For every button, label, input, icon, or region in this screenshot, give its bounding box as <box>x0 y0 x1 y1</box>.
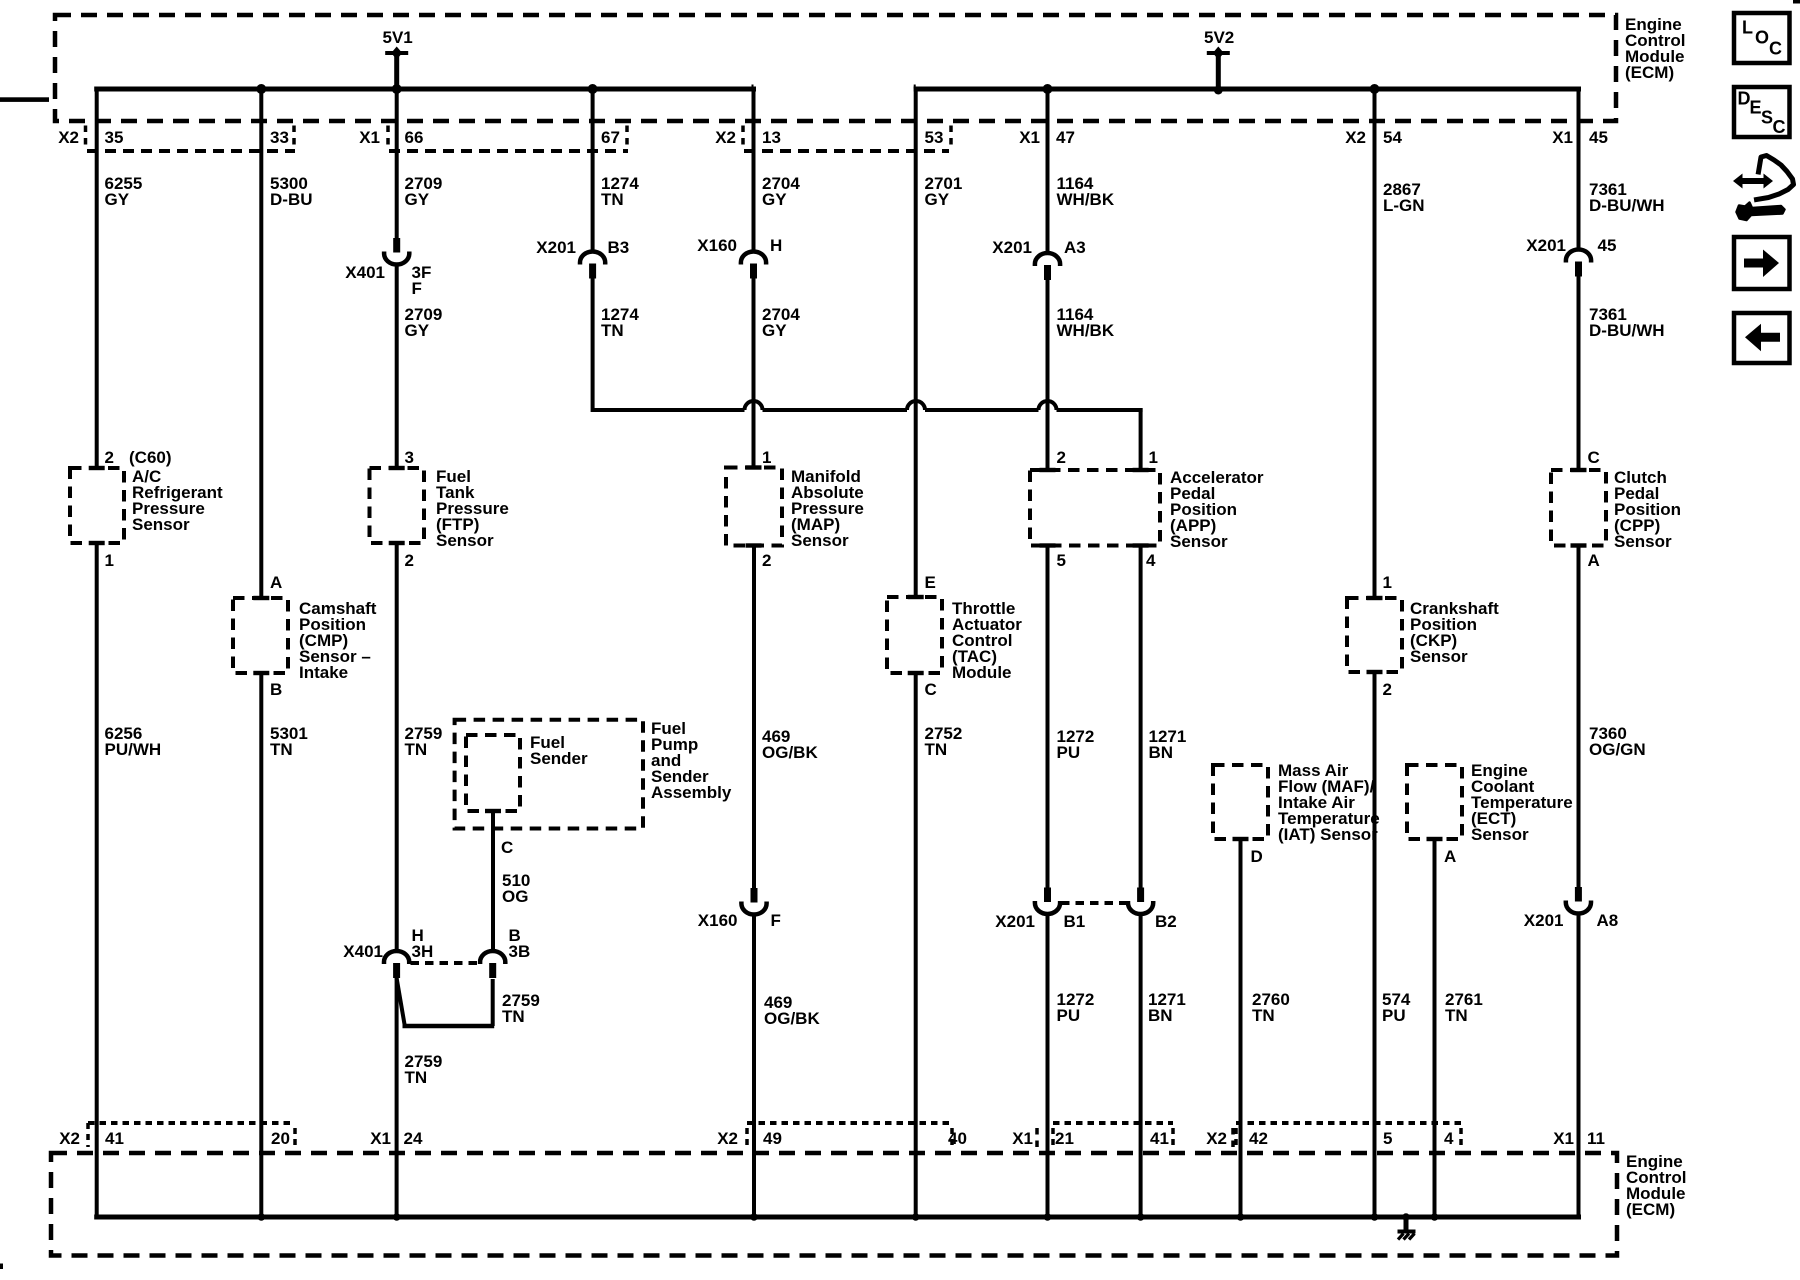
svg-text:X2: X2 <box>715 128 736 147</box>
svg-text:X2: X2 <box>1345 128 1366 147</box>
svg-text:C: C <box>1773 117 1786 137</box>
bottom band bracket X2 49-40 <box>747 1121 952 1125</box>
svg-text:D-BU: D-BU <box>270 190 313 209</box>
svg-text:53: 53 <box>925 128 944 147</box>
ground symbol <box>1402 1213 1410 1221</box>
svg-text:A: A <box>1444 847 1456 866</box>
svg-text:Sender: Sender <box>530 749 588 768</box>
svg-text:41: 41 <box>105 1129 124 1148</box>
svg-text:PU: PU <box>1057 1006 1081 1025</box>
back arrow icon box <box>1734 313 1790 363</box>
svg-text:21: 21 <box>1055 1129 1074 1148</box>
5V bus 2 <box>914 87 1581 92</box>
svg-text:Sensor: Sensor <box>791 531 849 550</box>
inline connector X401 pin 3F <box>393 238 400 253</box>
5V bus 1 <box>94 87 756 92</box>
wire 510 OG (fuel sender C to X401 B) <box>491 811 495 951</box>
svg-text:3B: 3B <box>509 942 531 961</box>
ECM top dashed box <box>55 15 1616 121</box>
bottom bus junction dots <box>258 1213 266 1221</box>
svg-text:TN: TN <box>502 1007 525 1026</box>
inline connector X201 pin B3 <box>580 251 605 264</box>
svg-text:Module: Module <box>952 663 1012 682</box>
wire 1274 TN (ECM 67 to X201 B3) <box>591 87 595 251</box>
Clutch Pedal Position (CPP) Sensor box <box>1551 470 1606 546</box>
svg-text:A: A <box>270 573 282 592</box>
svg-text:GY: GY <box>105 190 130 209</box>
svg-text:F: F <box>412 279 422 298</box>
svg-text:Sensor: Sensor <box>1410 647 1468 666</box>
corner artifact bottom-left <box>0 1264 3 1270</box>
svg-text:BN: BN <box>1149 743 1174 762</box>
svg-text:4: 4 <box>1444 1129 1454 1148</box>
dashed link X201 B1-B2 <box>1061 901 1127 905</box>
svg-text:C: C <box>501 838 513 857</box>
svg-text:H: H <box>770 236 782 255</box>
svg-text:A3: A3 <box>1064 238 1086 257</box>
svg-text:X401: X401 <box>343 942 383 961</box>
svg-text:20: 20 <box>271 1129 290 1148</box>
svg-text:X160: X160 <box>698 911 738 930</box>
svg-text:5V2: 5V2 <box>1204 28 1234 47</box>
top band bracket X2 13-53 <box>744 149 949 153</box>
svg-text:5: 5 <box>1057 551 1066 570</box>
bus1 junction dots <box>256 84 266 94</box>
inline connector X201 pin 45 <box>1566 250 1591 263</box>
wire 7361 D-BU/WH (ECM X1-45 to X201 45) <box>1577 87 1581 250</box>
svg-text:1: 1 <box>1383 573 1392 592</box>
wire 2759 TN (X401 H to ECM X1-24) <box>395 978 399 1217</box>
bottom band bracket X1 21-41 <box>1053 1121 1173 1125</box>
corner artifact top-right <box>1793 0 1800 4</box>
svg-text:47: 47 <box>1056 128 1075 147</box>
tools/repair icon: wrench <box>1737 203 1785 221</box>
svg-text:(C60): (C60) <box>129 448 172 467</box>
inline connector X201 pin B2 <box>1137 888 1144 903</box>
svg-text:TN: TN <box>601 190 624 209</box>
svg-text:TN: TN <box>925 740 948 759</box>
wire 574 PU (CKP 2 to ECM 5) <box>1373 672 1377 1217</box>
wire 2709 GY (ECM X1-66 to X401 3F) <box>395 87 399 239</box>
svg-text:E: E <box>925 573 936 592</box>
svg-text:WH/BK: WH/BK <box>1057 321 1115 340</box>
bottom band separators <box>1035 1128 1039 1148</box>
svg-text:11: 11 <box>1587 1129 1605 1148</box>
5V1 power symbol <box>385 51 408 55</box>
svg-text:OG/BK: OG/BK <box>762 743 818 762</box>
svg-text:Sensor: Sensor <box>1170 532 1228 551</box>
svg-text:GY: GY <box>405 321 430 340</box>
svg-text:L: L <box>1742 18 1753 38</box>
svg-text:X160: X160 <box>697 236 737 255</box>
Crankshaft Position (CKP) Sensor box <box>1347 598 1402 672</box>
wire 1272 PU (APP 5 to X201 B1) <box>1046 546 1050 889</box>
svg-text:X2: X2 <box>717 1129 738 1148</box>
svg-text:OG/GN: OG/GN <box>1589 740 1646 759</box>
svg-text:C: C <box>1588 448 1600 467</box>
hop over 2704 GY <box>745 401 763 410</box>
wire 1274 TN (X201 B3 down and across to APP pin 1) <box>591 278 595 412</box>
svg-text:Assembly: Assembly <box>651 783 732 802</box>
wire 1272 PU (X201 B1 to ECM X1-21) <box>1046 914 1050 1218</box>
svg-text:B3: B3 <box>608 238 630 257</box>
wire 2709 GY (X401 F to FTP pin 3) <box>395 264 399 468</box>
svg-text:X401: X401 <box>345 263 385 282</box>
tools/repair icon: swoosh outline <box>1757 156 1794 200</box>
svg-text:Sensor: Sensor <box>132 515 190 534</box>
svg-text:49: 49 <box>763 1129 782 1148</box>
wire 6255 GY (ECM X2-35 to A/C sensor pin 2) <box>95 87 99 469</box>
wire 1271 BN (APP 4 to X201 B2) <box>1139 546 1143 889</box>
svg-text:TN: TN <box>405 1068 428 1087</box>
Fuel Pump and Sender Assembly box <box>455 720 643 829</box>
bottom band bracket X2 41-20 <box>88 1121 295 1125</box>
wire 469 OG/BK (MAP pin 2 to X160 F) <box>752 546 756 889</box>
svg-text:4: 4 <box>1146 551 1156 570</box>
Manifold Absolute Pressure (MAP) Sensor box <box>726 468 782 546</box>
svg-text:2: 2 <box>1057 448 1066 467</box>
svg-text:O: O <box>1755 28 1769 48</box>
svg-text:X201: X201 <box>536 238 576 257</box>
svg-text:Sensor: Sensor <box>1614 532 1672 551</box>
svg-text:66: 66 <box>405 128 424 147</box>
svg-text:C: C <box>1769 39 1782 59</box>
bottom ground/signal bus <box>94 1215 1581 1220</box>
wire 2701 GY (ECM 53 to TAC module pin E) <box>914 85 916 89</box>
LOC icon box <box>1734 13 1790 63</box>
svg-text:X201: X201 <box>1526 236 1566 255</box>
svg-text:TN: TN <box>405 740 428 759</box>
svg-text:1: 1 <box>1149 448 1158 467</box>
svg-text:X2: X2 <box>1206 1129 1227 1148</box>
svg-text:54: 54 <box>1383 128 1402 147</box>
svg-text:13: 13 <box>762 128 781 147</box>
inline connector X160 pin F <box>751 888 758 903</box>
Accelerator Pedal Position (APP) Sensor box <box>1030 470 1160 546</box>
svg-text:TN: TN <box>601 321 624 340</box>
svg-text:B1: B1 <box>1064 912 1086 931</box>
wire 6256 PU/WH (A/C sensor pin 1 to ECM X2-41) <box>95 543 99 1217</box>
svg-text:X1: X1 <box>1012 1129 1033 1148</box>
inline connector X201 pin A3 <box>1035 253 1060 266</box>
svg-text:BN: BN <box>1148 1006 1173 1025</box>
wire 1164 WH/BK (ECM X1-47 to X201 A3) <box>1046 87 1050 253</box>
A/C Refrigerant Pressure Sensor box <box>70 468 124 543</box>
svg-text:GY: GY <box>925 190 950 209</box>
Fuel Sender box <box>466 735 520 811</box>
svg-text:S: S <box>1761 108 1773 128</box>
Camshaft Position (CMP) Sensor box <box>233 598 288 673</box>
inline connector X401 pin B/3B <box>480 951 505 964</box>
wire 2761 TN (ECT A to ECM 4) <box>1433 839 1437 1217</box>
ECM bottom dashed box <box>51 1153 1617 1256</box>
svg-text:B: B <box>270 680 282 699</box>
svg-text:1: 1 <box>105 551 114 570</box>
svg-text:WH/BK: WH/BK <box>1057 190 1115 209</box>
svg-text:X2: X2 <box>59 1129 80 1148</box>
wire 5301 TN (CMP pin B to ECM 20) <box>259 673 263 1217</box>
svg-text:D-BU/WH: D-BU/WH <box>1589 321 1665 340</box>
svg-text:3H: 3H <box>412 942 434 961</box>
svg-text:33: 33 <box>270 128 289 147</box>
wire 2704 GY (ECM X2-13 to X160 H) <box>752 85 754 89</box>
svg-text:GY: GY <box>762 321 787 340</box>
wire 2760 TN (MAF D to ECM X2-42) <box>1239 839 1243 1217</box>
svg-text:F: F <box>771 911 781 930</box>
wire 2704 GY (X160 H to MAP pin 1) <box>752 278 756 468</box>
svg-text:A: A <box>1588 551 1600 570</box>
svg-text:TN: TN <box>1252 1006 1275 1025</box>
Mass Air Flow (MAF)/IAT Sensor box <box>1213 765 1268 839</box>
svg-text:OG: OG <box>502 887 528 906</box>
svg-text:Sensor: Sensor <box>436 531 494 550</box>
wire 2759 TN (FTP pin 2 to X401 H) <box>395 543 399 951</box>
svg-text:2: 2 <box>762 551 771 570</box>
Throttle Actuator Control (TAC) Module box <box>887 597 942 673</box>
svg-text:2: 2 <box>405 551 414 570</box>
DESC icon box <box>1734 87 1790 137</box>
svg-text:PU: PU <box>1382 1006 1406 1025</box>
svg-text:45: 45 <box>1598 236 1617 255</box>
top band separators <box>84 126 88 149</box>
svg-text:X1: X1 <box>1553 1129 1574 1148</box>
hop over 1164 WH/BK <box>1039 401 1057 410</box>
svg-text:OG/BK: OG/BK <box>764 1009 820 1028</box>
svg-text:45: 45 <box>1589 128 1608 147</box>
svg-text:(ECM): (ECM) <box>1625 63 1674 82</box>
svg-text:X2: X2 <box>58 128 79 147</box>
svg-text:X1: X1 <box>1552 128 1573 147</box>
top band bracket X1 66-67 <box>389 149 628 153</box>
wire 7360 OG/GN (X201 A8 to ECM X1-11) <box>1577 913 1581 1217</box>
svg-text:A8: A8 <box>1597 911 1619 930</box>
svg-text:TN: TN <box>270 740 293 759</box>
inline connector X401 pin H/3H <box>384 951 409 964</box>
svg-text:Sensor: Sensor <box>1471 825 1529 844</box>
svg-text:5: 5 <box>1383 1129 1392 1148</box>
wire 2867 L-GN (ECM X2-54 to CKP pin 1) <box>1373 87 1377 599</box>
svg-text:67: 67 <box>601 128 620 147</box>
hop over 2701 GY <box>907 401 925 410</box>
svg-text:Intake: Intake <box>299 663 348 682</box>
svg-text:E: E <box>1750 98 1762 118</box>
svg-text:TN: TN <box>1445 1006 1468 1025</box>
svg-text:(IAT) Sensor: (IAT) Sensor <box>1278 825 1378 844</box>
forward arrow icon box <box>1734 237 1790 289</box>
svg-text:41: 41 <box>1150 1129 1169 1148</box>
inline connector X201 pin A8 <box>1575 887 1582 902</box>
svg-text:(ECM): (ECM) <box>1626 1200 1675 1219</box>
svg-text:PU/WH: PU/WH <box>105 740 162 759</box>
svg-text:D-BU/WH: D-BU/WH <box>1589 196 1665 215</box>
svg-text:1: 1 <box>762 448 771 467</box>
svg-text:24: 24 <box>404 1129 423 1148</box>
wire 1271 BN (X201 B2 to ECM 41) <box>1139 914 1143 1218</box>
wire 7361 D-BU/WH (X201 45 to CPP pin C) <box>1577 276 1581 470</box>
bottom band bracket X2 42-5-4 <box>1236 1121 1461 1125</box>
svg-text:35: 35 <box>105 128 124 147</box>
svg-text:3: 3 <box>405 448 414 467</box>
5V2 power symbol <box>1207 51 1230 55</box>
splice wire 2759 TN to fuel sender <box>397 978 405 1026</box>
svg-text:GY: GY <box>762 190 787 209</box>
svg-text:X201: X201 <box>995 912 1035 931</box>
wire 7360 OG/GN (CPP A to X201 A8) <box>1577 546 1581 889</box>
bus2 junction dots <box>1043 84 1053 94</box>
svg-text:D: D <box>1251 847 1263 866</box>
svg-text:5V1: 5V1 <box>383 28 413 47</box>
wire 2752 TN (TAC C to ECM 40) <box>914 673 918 1217</box>
wire 469 OG/BK (X160 F to ECM X2-49) <box>752 914 756 1217</box>
svg-text:C: C <box>925 680 937 699</box>
Fuel Tank Pressure (FTP) Sensor box <box>370 468 425 543</box>
svg-text:40: 40 <box>948 1129 967 1148</box>
svg-text:2: 2 <box>1383 680 1392 699</box>
tools/repair icon: double arrow <box>1733 174 1773 189</box>
wire 5300 D-BU (ECM 33 to CMP pin A) <box>259 87 263 599</box>
Engine Coolant Temperature (ECT) Sensor box <box>1407 765 1462 839</box>
inline connector X160 pin H <box>741 251 766 264</box>
svg-text:PU: PU <box>1057 743 1081 762</box>
svg-text:X201: X201 <box>1524 911 1564 930</box>
page-edge wire stub left <box>0 97 49 102</box>
top band bracket X2 35-33 <box>87 149 295 153</box>
svg-text:X201: X201 <box>992 238 1032 257</box>
svg-text:42: 42 <box>1249 1129 1268 1148</box>
svg-text:B2: B2 <box>1155 912 1177 931</box>
svg-text:X1: X1 <box>359 128 380 147</box>
svg-text:2: 2 <box>105 448 114 467</box>
svg-text:X1: X1 <box>370 1129 391 1148</box>
svg-text:GY: GY <box>405 190 430 209</box>
inline connector X201 pin B1 <box>1044 888 1051 903</box>
svg-text:L-GN: L-GN <box>1383 196 1425 215</box>
svg-text:X1: X1 <box>1019 128 1040 147</box>
dashed link X401 H-B <box>411 961 480 965</box>
wire 1164 WH/BK (X201 A3 to APP pin 2) <box>1046 280 1050 471</box>
